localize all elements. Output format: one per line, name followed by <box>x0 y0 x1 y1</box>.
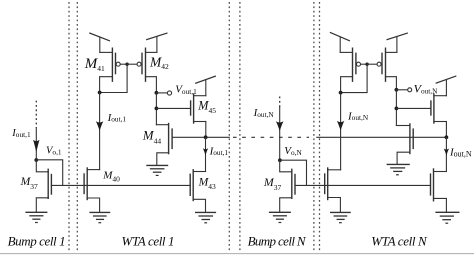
svg-text:M43: M43 <box>198 176 216 192</box>
wire Vout1 vertical <box>155 93 157 125</box>
wire M43N drain with IoutN <box>445 137 447 171</box>
terminal VoutN <box>396 88 411 92</box>
transistor M43N <box>431 169 447 201</box>
wire common line solid right <box>317 136 447 138</box>
wire M40N source <box>328 198 341 213</box>
boundary dotted line mid pair B <box>239 2 241 251</box>
ground M44 <box>147 165 168 175</box>
svg-text:M45: M45 <box>197 99 216 115</box>
arrow IoutN mirror <box>337 121 344 131</box>
wire IoutN input bump cell N <box>279 108 281 161</box>
wire M43 source <box>193 199 205 212</box>
wire Iout1 input bump cell 1 <box>35 128 37 160</box>
wire M45N drain <box>445 122 447 138</box>
boundary dotted line right pair A <box>313 2 315 251</box>
ground M44N <box>387 164 409 174</box>
wire M37N diode tie <box>280 160 307 185</box>
svg-text:Vout,N: Vout,N <box>414 82 438 96</box>
svg-text:Vo,1: Vo,1 <box>46 146 62 157</box>
node gate junction M41-M42 <box>125 62 128 65</box>
transistor M44N <box>410 124 413 154</box>
ground M40N <box>331 212 350 222</box>
transistor M43 <box>190 170 205 201</box>
node common line cell 1 <box>204 135 208 139</box>
boundary dotted line right pair B <box>319 2 321 251</box>
wire gate tie to M41N drain <box>341 64 368 92</box>
wire common line dashed <box>233 136 309 138</box>
arrow IoutN bump cell N <box>276 121 284 131</box>
transistor M45N <box>431 94 447 123</box>
svg-text:Iout,N: Iout,N <box>449 147 472 159</box>
wire M42 drain <box>146 77 157 93</box>
wire M37N source <box>280 198 292 213</box>
svg-text:M40: M40 <box>102 169 120 183</box>
boundary dotted line left pair B <box>76 2 78 251</box>
svg-text:M42: M42 <box>149 55 169 72</box>
svg-text:Iout,1: Iout,1 <box>11 128 31 139</box>
svg-text:M44: M44 <box>142 128 161 145</box>
svg-text:M37: M37 <box>263 175 282 192</box>
arrow Iout1 mirror <box>96 121 103 131</box>
node gate junction M41N-M42N <box>365 62 368 65</box>
bottom scan line <box>0 253 474 255</box>
svg-text:Iout,1: Iout,1 <box>209 145 229 157</box>
vdd supply M45N <box>436 76 456 96</box>
wire M37 drain <box>36 160 48 172</box>
wire M45N gate <box>396 107 431 109</box>
svg-text:Iout,1: Iout,1 <box>107 112 127 124</box>
node VoutN tee <box>395 88 399 92</box>
wire M44 drain <box>156 124 168 126</box>
ground M43N <box>436 212 459 223</box>
node VoN <box>278 158 282 162</box>
arrow IoutN M43N <box>444 149 449 156</box>
vdd supply M45 <box>196 76 216 96</box>
svg-text:Iout,N: Iout,N <box>347 111 369 123</box>
transistor M42 <box>127 48 157 81</box>
svg-text:Vout,1: Vout,1 <box>175 84 197 96</box>
vdd supply M42 <box>147 33 167 52</box>
wire gate tie to M41 drain <box>100 64 128 92</box>
transistor M41N <box>340 48 367 81</box>
transistor M45 <box>191 94 206 123</box>
vdd supply M41N <box>330 33 349 53</box>
wire M37 diode tie <box>36 160 62 186</box>
wire M44N source <box>397 152 410 164</box>
node common line cell N <box>445 135 449 139</box>
svg-text:WTA cell N: WTA cell N <box>371 234 428 249</box>
svg-text:Iout,N: Iout,N <box>253 107 275 119</box>
wire M40 source <box>87 198 99 212</box>
wire M44 source <box>157 153 169 166</box>
svg-text:Bump cell 1: Bump cell 1 <box>8 234 66 249</box>
wire M45 drain <box>205 122 207 138</box>
wire M37 source <box>36 198 48 213</box>
svg-text:M37: M37 <box>20 175 38 191</box>
terminal Vout1 <box>156 91 171 95</box>
wire dotted input stub bump cell N <box>279 97 281 108</box>
node M45 gate tee <box>155 107 159 111</box>
wire VoutN vertical <box>395 90 397 126</box>
wire M41N drain <box>341 77 353 93</box>
wire M42N drain <box>386 77 397 90</box>
svg-text:M41: M41 <box>84 56 105 73</box>
transistor M42N <box>367 48 397 81</box>
ground M40 <box>90 212 109 222</box>
boundary dotted line mid pair A <box>228 2 230 251</box>
wire dotted input stub bump cell 1 <box>35 101 37 128</box>
vdd supply M42N <box>387 33 407 52</box>
arrow Iout1 bump cell 1 <box>33 140 39 153</box>
node M45N gate tee <box>395 107 399 111</box>
ground bump cell N <box>270 212 291 222</box>
boundary dotted line left pair A <box>68 2 70 251</box>
transistor M37 bump cell N <box>292 169 295 198</box>
wire M43 drain with Iout1 <box>205 137 207 171</box>
wire M43N source <box>434 198 447 212</box>
transistor M41 <box>100 48 127 81</box>
node Vout1 tee <box>155 91 159 95</box>
wire IoutN mirror branch <box>340 93 342 170</box>
transistor M40 <box>84 168 100 200</box>
wire Iout1 mirror branch <box>99 93 101 170</box>
wire M41 drain <box>100 77 113 93</box>
vdd supply M41 <box>90 33 110 52</box>
ground bump cell 1 <box>26 212 47 222</box>
svg-text:WTA cell 1: WTA cell 1 <box>122 234 175 249</box>
wire M44N drain <box>396 125 410 127</box>
node M41N drain <box>339 91 343 95</box>
svg-text:Bump cell N: Bump cell N <box>248 234 307 249</box>
transistor M37 <box>48 169 51 198</box>
wire gate line row N (M37N-M40N-M43N) <box>295 184 431 186</box>
wire common line solid left <box>172 136 229 138</box>
transistor M44 <box>169 124 173 154</box>
wire gate line row (M37-M40-M43) <box>51 184 190 186</box>
arrow Iout1 M43 <box>203 148 208 155</box>
transistor M40N <box>325 168 341 200</box>
wire M37N drain <box>280 160 292 172</box>
wire M45 gate <box>156 107 190 109</box>
node M41 drain <box>98 91 102 95</box>
node Vo1 <box>34 158 38 162</box>
ground M43 <box>196 212 216 222</box>
svg-text:Vo,N: Vo,N <box>284 145 302 157</box>
